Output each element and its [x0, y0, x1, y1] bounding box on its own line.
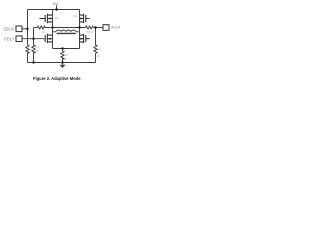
svg-text:AOUT: AOUT [111, 26, 120, 30]
svg-text:R1: R1 [28, 48, 32, 52]
transistor M3 arrow [48, 37, 51, 40]
svg-text:M1: M1 [55, 16, 60, 20]
junction AOUT [94, 26, 96, 28]
svg-text:SBUS: SBUS [3, 27, 15, 32]
wire R6 to bottom rail [95, 54, 97, 63]
wire R4 to AOUT pin [94, 27, 103, 29]
resistor R5 [61, 51, 64, 60]
wire node A to node B [53, 27, 80, 29]
wire source rail y48 [53, 48, 80, 50]
wire R3 to node A [47, 27, 53, 29]
junction SBUS [26, 28, 28, 30]
ground stub [62, 63, 64, 65]
wire bottom rail [28, 62, 96, 64]
wire y27 left segment [34, 27, 38, 29]
junction node A [51, 26, 53, 28]
wire node C to R5 [62, 49, 64, 52]
inductor L1 coil [56, 30, 76, 32]
svg-text:Figure 2. Adaptive Mode: Figure 2. Adaptive Mode [33, 76, 81, 81]
wire left vertical [27, 10, 29, 45]
wire PDLY to M3 gate [22, 38, 45, 40]
svg-text:M4: M4 [89, 30, 93, 34]
svg-text:PDLY: PDLY [4, 37, 15, 42]
svg-text:1k: 1k [35, 49, 39, 53]
transistor M2 drain-source vertical [79, 10, 81, 49]
junction node B [78, 26, 80, 28]
transistor M4 arrow [80, 37, 83, 40]
svg-text:M2: M2 [73, 14, 77, 18]
svg-text:R6: R6 [97, 47, 101, 51]
transistor M1 [40, 14, 53, 23]
transistor M2 [80, 14, 90, 23]
resistor R4 [86, 26, 94, 29]
wire R2 to bottom rail [33, 52, 35, 62]
wire top rail VIN [28, 9, 80, 11]
wire gate-divider vertical [33, 28, 35, 45]
junction R2 bottom [32, 61, 34, 63]
svg-text:1k: 1k [64, 57, 68, 61]
wire R1 top [27, 44, 29, 47]
transistor M4 [80, 34, 90, 43]
ground [59, 65, 65, 68]
resistor R1 [26, 45, 29, 54]
pin PDLY box [16, 36, 22, 42]
wire SBUS to left vertical [22, 28, 28, 30]
svg-text:R3: R3 [41, 30, 45, 34]
junction ground [61, 61, 63, 63]
wire right vertical divider [95, 28, 97, 46]
wire R5 to bottom rail [62, 59, 64, 63]
resistor R2 [32, 45, 35, 54]
pin SBUS box [16, 26, 22, 32]
inductor L1 core [57, 32, 76, 34]
wire node B to R4 [80, 27, 86, 29]
resistor R3 [37, 26, 47, 29]
junction PDLY [32, 38, 34, 40]
svg-text:1k: 1k [97, 54, 101, 58]
inductor L1 leads [53, 31, 80, 33]
transistor M3 [45, 34, 52, 43]
wire R1 to bottom rail [27, 53, 29, 63]
transistor M2 arrow [80, 17, 83, 20]
junction node C [61, 47, 63, 49]
node VIN tick [56, 5, 58, 9]
junction VIN [55, 8, 57, 10]
svg-text:VIN: VIN [53, 1, 58, 6]
resistor R6 [94, 45, 97, 54]
transistor M1 drain-source vertical [52, 10, 54, 49]
transistor M1 arrow [48, 17, 51, 20]
pin AOUT box [103, 25, 109, 31]
